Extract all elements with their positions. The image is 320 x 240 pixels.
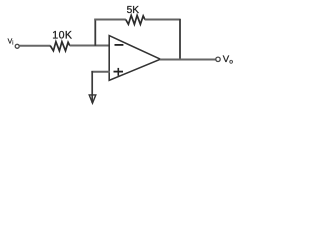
op-amp plus sign (non-inverting input) [114,71,124,73]
wire non-inverting input horizontal [91,71,110,73]
svg-text:5K: 5K [127,5,140,16]
resistor R1 10K zigzag [50,42,70,51]
svg-text:10K: 10K [52,30,72,42]
wire feedback right vertical [179,19,181,60]
wire feedback left vertical [94,19,96,46]
output terminal [216,57,220,61]
op-amp minus sign (inverting input) [115,44,124,46]
wire op-amp output [160,59,216,61]
wire input to resistor R1 [19,45,50,47]
wire ground branch vertical [91,71,93,103]
wire feedback top right segment [145,19,181,21]
resistor R2 5K zigzag [126,15,145,24]
op-amp U1 triangle [109,36,160,81]
ground arrow symbol [89,95,96,103]
svg-text:Vi: Vi [8,38,14,46]
input terminal [15,44,19,48]
wire feedback top left segment [94,19,126,21]
wire resistor R1 to op-amp inverting input [70,45,110,47]
